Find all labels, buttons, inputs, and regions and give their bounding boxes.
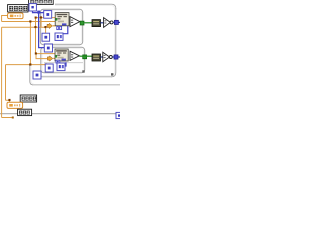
frame B2 inner divider	[44, 62, 83, 64]
green wire B row	[79, 55, 92, 57]
label box T4	[18, 109, 32, 115]
terminal icon T1a	[44, 11, 52, 19]
beige2 sub tab	[56, 60, 60, 63]
terminal icon F3a	[33, 71, 41, 79]
wire: branch x45.5 down to icon A4	[45, 27, 47, 33]
inner frame B2	[41, 47, 85, 72]
wire: branch x35.5 down to group B	[35, 18, 37, 54]
comparison triangle node 2b with bubble	[103, 52, 113, 62]
wire: y22 horizontal to icon row	[2, 21, 56, 23]
blue wire vertical to terminal T2	[39, 13, 45, 48]
conversion arrow 2	[47, 56, 55, 61]
blue wire beige1 to icon A5	[63, 26, 68, 34]
green tunnel on A2 edge	[80, 21, 84, 25]
wire: x5 vertical down left	[5, 65, 7, 101]
terminal icon 5	[57, 63, 65, 71]
comparison triangle node 1b with bubble	[104, 18, 114, 28]
numeric constant C1	[8, 13, 23, 19]
dark function icon 2	[92, 54, 101, 61]
label box T2 (cut at top)	[29, 0, 54, 4]
wire: constant C1 output to left rail	[2, 16, 8, 22]
terminal icon A5	[55, 33, 63, 40]
wire: y17 branch to beige icon input1	[36, 17, 56, 19]
label box T3	[20, 95, 36, 102]
blue wire exit B row	[112, 56, 120, 58]
inner frame A2	[40, 9, 82, 44]
blue junction block	[37, 11, 40, 14]
wire: group B input2 jog	[36, 54, 48, 59]
wire: y64.5 horizontal above bottom frame	[6, 64, 47, 66]
blue wire exit A row	[113, 21, 120, 23]
green tunnel on B2 edge	[83, 55, 87, 59]
conversion arrow 1	[47, 23, 56, 28]
wire: group B input1 horizontal	[36, 53, 56, 55]
express VI icon beige1	[55, 13, 69, 26]
blue wire from terminal T0	[33, 11, 44, 13]
terminal icon A4	[42, 33, 50, 41]
cut-off terminal bottom right	[116, 112, 122, 118]
beige1 sub tab	[57, 26, 62, 29]
numeric constant C2	[7, 102, 23, 108]
green wire A row	[84, 22, 92, 24]
bottom frame F3 bottom edge	[32, 84, 120, 86]
wire: bottom stub y117.5	[2, 117, 14, 119]
outer loop frame bottom edge	[40, 73, 113, 77]
outer loop frame top edge	[55, 4, 116, 9]
blue tunnel on outer edge B row	[114, 55, 118, 59]
navy wire to not node 1	[101, 22, 104, 24]
wire: left rail long vertical	[1, 27, 3, 117]
label box T1	[8, 5, 28, 12]
wire: branch x30.5 down to bottom rail	[29, 22, 31, 65]
wire: y27 horizontal	[2, 26, 47, 28]
terminal icon 4	[45, 64, 53, 72]
local variable terminal T0	[29, 4, 36, 11]
blue wire beige2 to icon 5	[65, 62, 66, 66]
bottom structure edge line	[0, 113, 116, 115]
comparison triangle node 1	[70, 17, 80, 27]
navy wire to not node 2	[101, 56, 103, 58]
wire junction dots	[8, 16, 47, 101]
express VI icon beige2	[55, 49, 68, 61]
dark function icon 1	[92, 20, 101, 27]
outer loop frame right edge	[111, 8, 116, 77]
blue tunnel on outer edge A row	[114, 20, 118, 24]
wire: vertical x41 connecting y17 and y27	[40, 18, 42, 28]
wire: into constant C2	[6, 100, 10, 102]
terminal icon T2	[44, 44, 52, 52]
comparison triangle node 2	[70, 51, 79, 60]
bottom frame F3 left edge	[30, 65, 34, 85]
